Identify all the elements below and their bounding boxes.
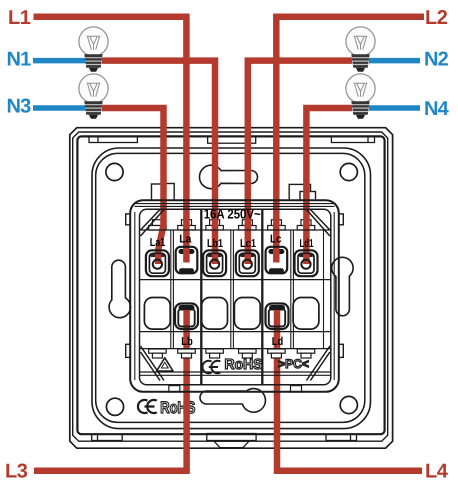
- screw bottom-right: [340, 396, 357, 413]
- terminal Lb body: [175, 304, 198, 330]
- bottom clip column1: [149, 349, 167, 358]
- svg-text:>PC<: >PC<: [278, 357, 309, 371]
- bottom clip column2: [178, 349, 196, 358]
- svg-text:Ld1: Ld1: [300, 238, 314, 250]
- svg-text:La: La: [179, 234, 192, 246]
- window column4: [234, 298, 260, 330]
- lamp N4: [346, 74, 375, 119]
- bottom clip column5: [268, 349, 286, 358]
- svg-text:Lc: Lc: [270, 234, 282, 246]
- lamp N2: [346, 27, 375, 72]
- window column1: [144, 298, 170, 330]
- wire N3 neutral: [33, 105, 86, 111]
- mechanism side tab left-top: [126, 214, 135, 225]
- terminal Lc1 body: [236, 250, 259, 276]
- mechanism middle row bottom line: [140, 331, 331, 333]
- window column6: [293, 298, 319, 330]
- wire N3 lamp to terminal La1: [102, 108, 164, 264]
- terminal Lc body: [266, 247, 288, 273]
- svg-text:L3: L3: [5, 461, 28, 483]
- terminal La outline: [176, 247, 198, 273]
- keyhole top-center: [199, 165, 257, 188]
- mechanism side tab right-top: [334, 214, 343, 225]
- plate top bracket right: [331, 137, 374, 143]
- terminal clip column4: [239, 220, 256, 230]
- terminal clip column5: [268, 220, 286, 230]
- plate top bracket left: [89, 137, 137, 143]
- mechanism outer box: [130, 200, 339, 392]
- svg-text:RoHS: RoHS: [225, 357, 263, 373]
- mechanism bottom clips line: [140, 348, 331, 350]
- window column3: [202, 298, 228, 330]
- switch plate: [77, 136, 384, 434]
- mechanism side tab right-bottom: [334, 344, 343, 357]
- terminal Ld outline: [266, 304, 289, 330]
- wire N1 neutral: [33, 58, 86, 64]
- mechanism terminal row bottom line: [140, 279, 331, 281]
- terminal clip column3: [206, 220, 224, 230]
- svg-text:Lb: Lb: [181, 336, 193, 348]
- plate bottom bracket center: [207, 434, 256, 441]
- terminal La1 outline: [146, 250, 169, 276]
- wire L2 to terminal Lc: [276, 17, 424, 263]
- svg-text:L2: L2: [425, 7, 448, 29]
- mechanism inner box: [140, 209, 331, 384]
- wire terminal Lb to L3: [34, 309, 187, 471]
- terminal clip column2: [178, 220, 196, 230]
- mechanism side tab left-bottom: [126, 344, 135, 357]
- mechanism foot right: [291, 386, 302, 392]
- svg-text:L1: L1: [8, 7, 31, 29]
- svg-text:N3: N3: [7, 95, 32, 117]
- plate bottom bracket right: [326, 434, 357, 440]
- module separator lines: [171, 230, 324, 349]
- mechanism top edge lines: [135, 204, 335, 207]
- plate CE mark: [138, 400, 157, 413]
- terminal clip column6: [297, 220, 315, 230]
- wire N4 neutral: [369, 105, 420, 111]
- terminal Lb1 outline: [203, 250, 226, 276]
- terminal Lb1 body: [203, 250, 226, 276]
- keyhole right: [332, 257, 353, 315]
- bottom clip column6: [297, 349, 315, 358]
- svg-text:RoHS: RoHS: [160, 399, 195, 417]
- svg-text:N2: N2: [424, 49, 449, 71]
- bottom clip column4: [239, 349, 256, 358]
- terminal Ld1 outline: [295, 250, 318, 276]
- mechanism CE mark: [202, 361, 220, 373]
- plate recessed panel: [92, 148, 371, 429]
- terminal Lc1 outline: [236, 250, 259, 276]
- plate bottom trapezoid tab: [214, 441, 249, 447]
- mechanism bottom double line: [140, 372, 331, 375]
- recycle triangle symbol: [157, 358, 173, 371]
- wire L1 to terminal La: [34, 17, 187, 263]
- wire N2 neutral: [369, 58, 420, 64]
- mechanism shelf line: [140, 229, 331, 231]
- wire N4 lamp to terminal Ld1: [306, 108, 352, 264]
- terminal clip column1: [149, 220, 167, 230]
- svg-text:16A 250V~: 16A 250V~: [204, 207, 261, 222]
- keyhole left: [109, 260, 130, 318]
- terminal Lb outline: [175, 304, 198, 330]
- screw bottom-left: [106, 398, 123, 415]
- mechanism foot left: [169, 386, 180, 392]
- lamp N3: [79, 74, 108, 119]
- mechanism side wall lines: [135, 212, 334, 380]
- svg-text:Ld: Ld: [272, 336, 284, 348]
- bottom clip column3: [206, 349, 224, 358]
- svg-text:La1: La1: [150, 237, 166, 249]
- svg-text:L4: L4: [425, 461, 449, 483]
- mechanism top tab left: [152, 184, 175, 201]
- terminal Ld1 body: [295, 250, 318, 276]
- keyhole bottom-center: [200, 389, 265, 413]
- terminal Ld body: [266, 304, 289, 330]
- lamp N1: [79, 27, 108, 72]
- screw top-left: [106, 163, 123, 180]
- terminal Lc outline: [266, 247, 288, 273]
- wire N1 lamp to terminal Lb1: [102, 61, 215, 264]
- svg-text:Lb1: Lb1: [207, 238, 223, 250]
- switch outer frame: [70, 128, 393, 449]
- svg-text:N4: N4: [424, 98, 450, 120]
- plate bottom bracket left: [92, 434, 123, 440]
- plate top bracket center: [208, 137, 256, 144]
- terminal La body: [176, 247, 198, 273]
- mechanism body background: [130, 200, 339, 392]
- screw top-right: [340, 163, 357, 180]
- svg-text:N1: N1: [7, 49, 32, 71]
- mechanism corner gussets: [141, 210, 330, 381]
- mechanism top tab right: [289, 184, 315, 200]
- terminal La1 body: [146, 250, 169, 276]
- wire N2 lamp to terminal Lc1: [248, 61, 352, 264]
- wire terminal Ld to L4: [277, 309, 422, 471]
- svg-text:Lc1: Lc1: [240, 238, 256, 250]
